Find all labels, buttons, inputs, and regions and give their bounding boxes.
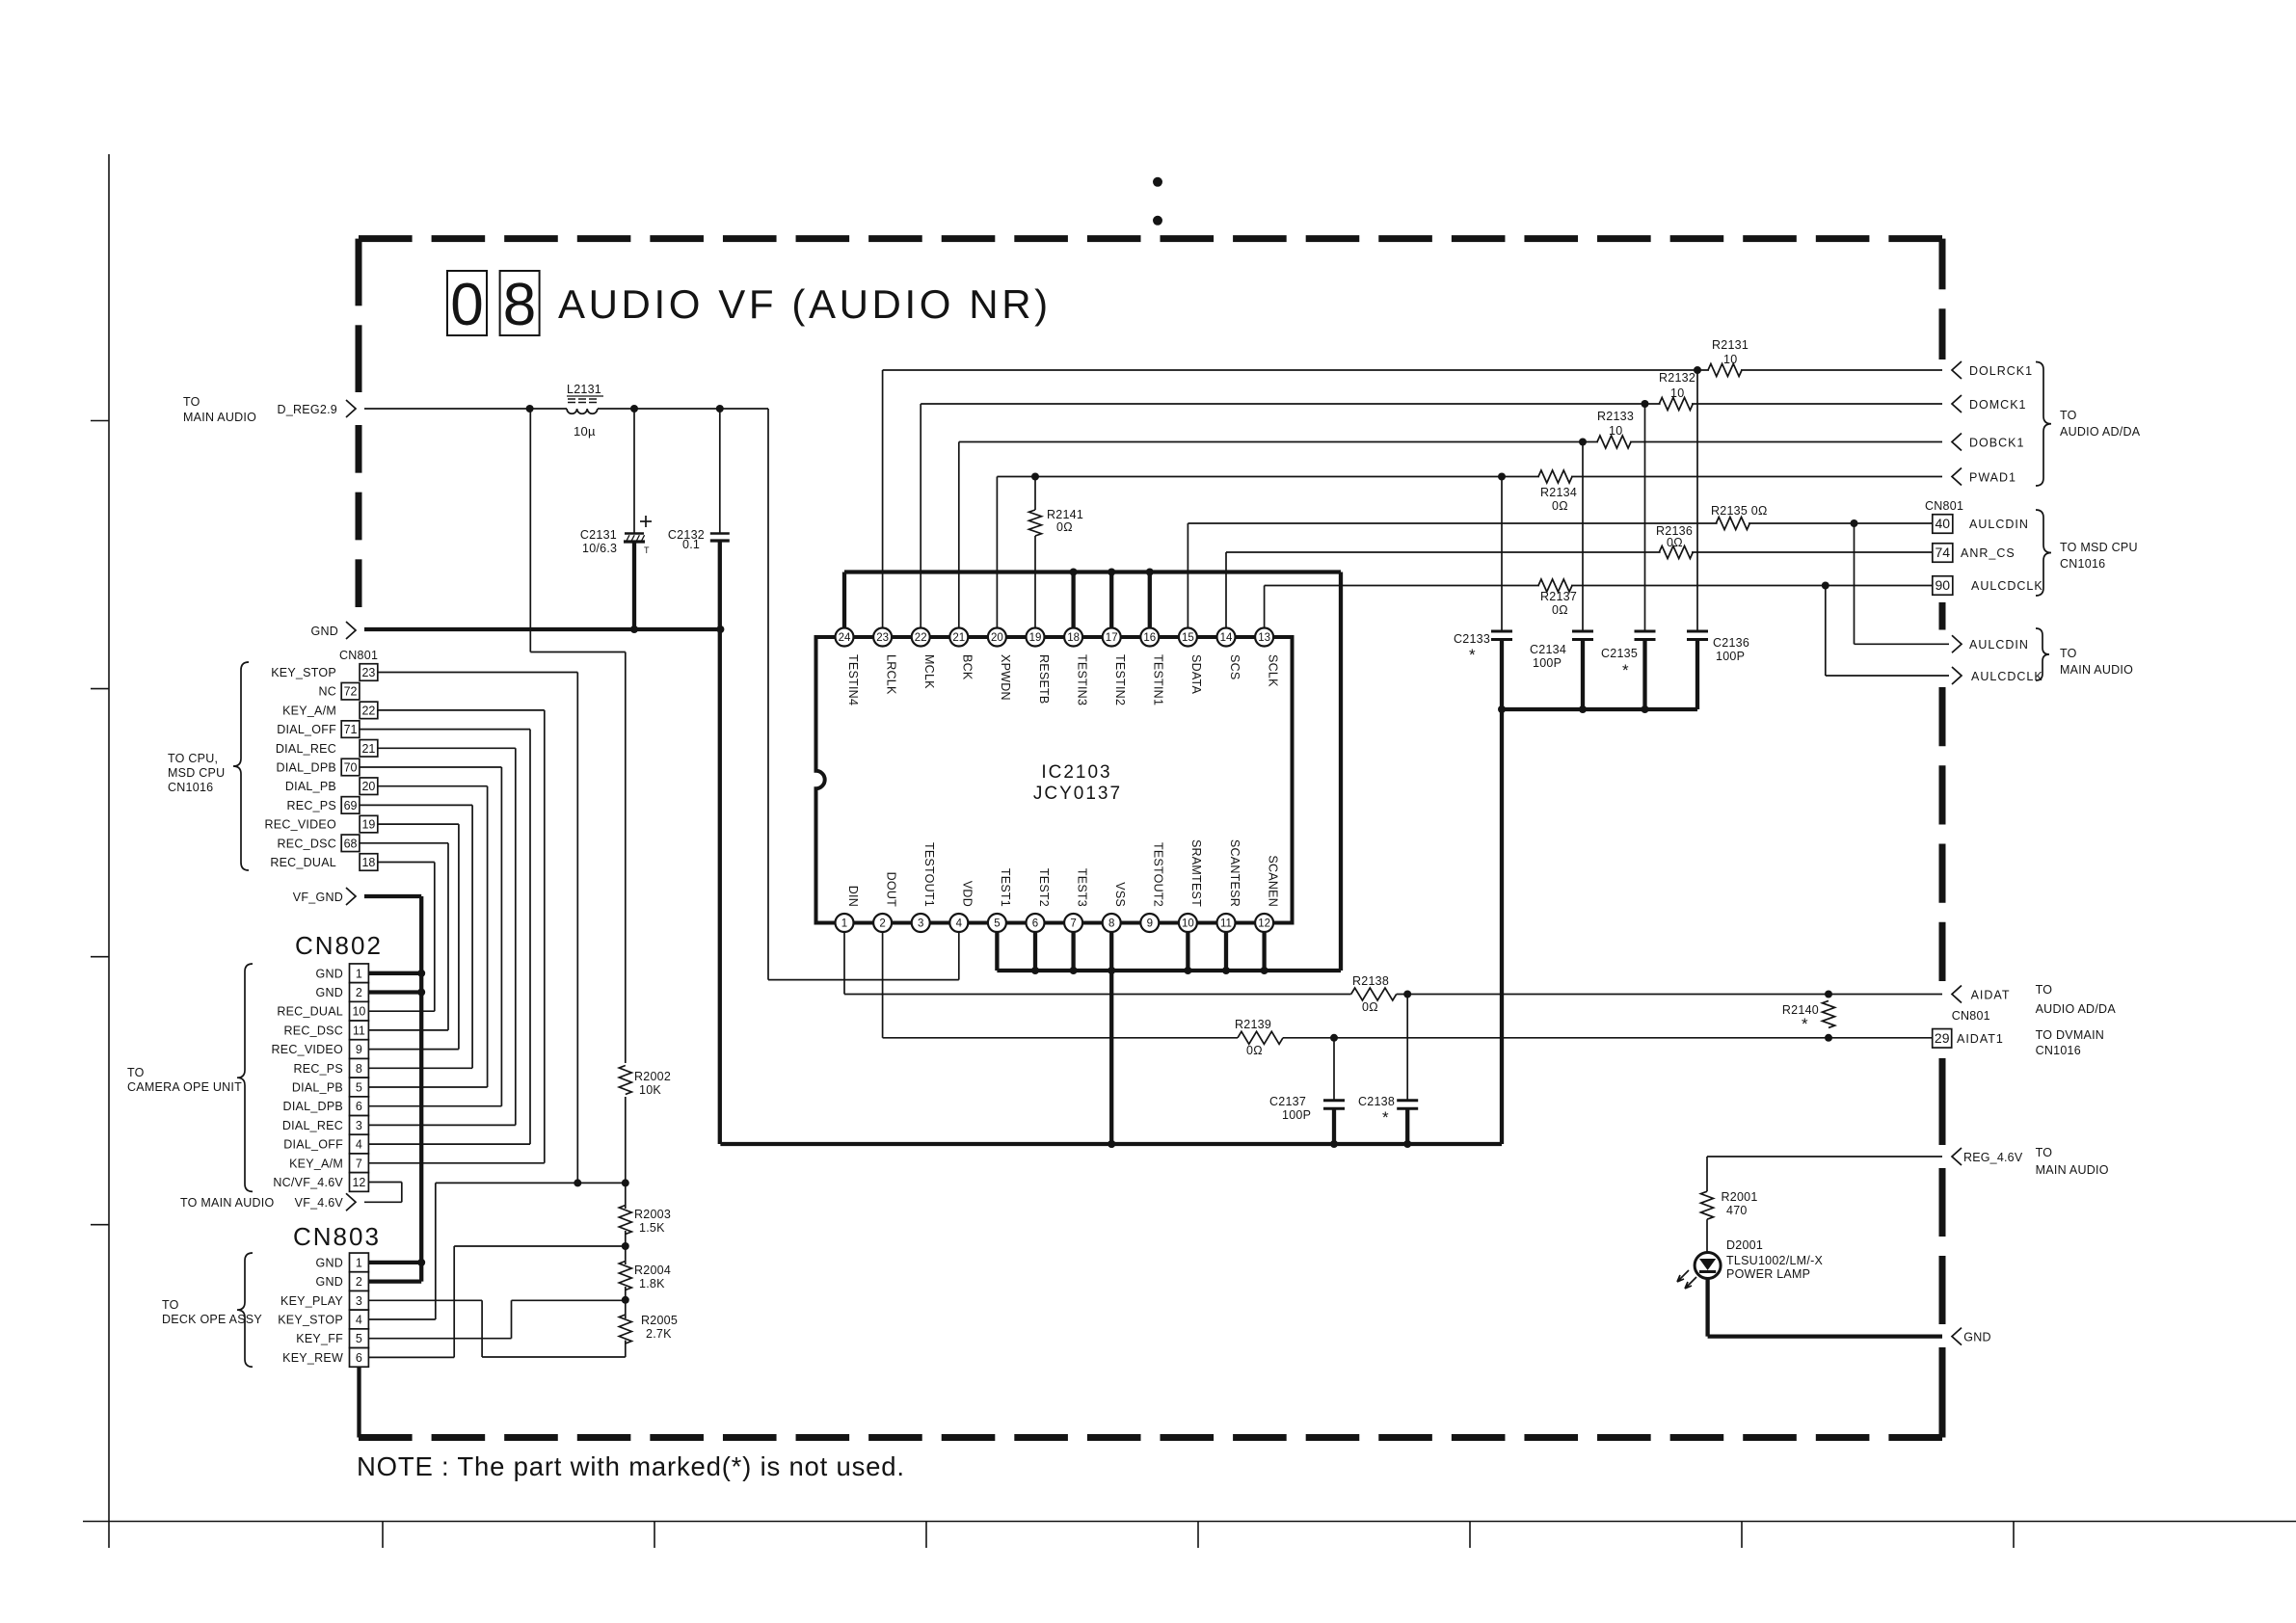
svg-text:KEY_STOP: KEY_STOP [278,1314,343,1327]
svg-text:15: 15 [1182,632,1194,644]
svg-text:1: 1 [356,1256,362,1269]
svg-text:L2131: L2131 [567,383,601,396]
svg-text:DIAL_REC: DIAL_REC [282,1119,343,1132]
svg-text:MAIN AUDIO: MAIN AUDIO [2036,1163,2109,1177]
svg-text:5: 5 [356,1332,362,1345]
svg-text:TO MSD CPU: TO MSD CPU [2060,541,2138,554]
svg-text:10: 10 [352,1005,365,1019]
svg-text:C2131: C2131 [580,528,617,542]
svg-text:10µ: 10µ [574,424,596,439]
svg-text:AIDAT: AIDAT [1971,989,2011,1002]
svg-text:REC_DSC: REC_DSC [284,1024,344,1037]
svg-text:DOMCK1: DOMCK1 [1969,398,2026,412]
svg-text:LRCLK: LRCLK [884,654,897,695]
svg-text:TO: TO [2060,409,2077,422]
svg-text:18: 18 [1067,632,1080,644]
svg-text:R2001: R2001 [1722,1190,1758,1204]
svg-text:MAIN AUDIO: MAIN AUDIO [2060,663,2133,677]
svg-text:MAIN AUDIO: MAIN AUDIO [183,411,256,424]
svg-text:4: 4 [356,1138,362,1152]
svg-text:R2002: R2002 [634,1070,671,1083]
svg-text:R2138: R2138 [1352,974,1389,988]
svg-text:CAMERA OPE UNIT: CAMERA OPE UNIT [127,1080,242,1094]
svg-text:21: 21 [361,742,375,756]
svg-text:17: 17 [1106,632,1118,644]
svg-text:TO: TO [162,1298,179,1312]
svg-text:GND: GND [1963,1331,1991,1344]
svg-text:TEST3: TEST3 [1075,868,1088,907]
svg-text:0: 0 [450,272,483,338]
svg-text:3: 3 [356,1294,362,1308]
svg-text:71: 71 [344,723,358,736]
svg-text:1.5K: 1.5K [639,1221,665,1235]
svg-text:REC_DUAL: REC_DUAL [277,1005,343,1019]
svg-text:TO CPU,: TO CPU, [168,752,218,765]
svg-text:AIDAT1: AIDAT1 [1957,1032,2004,1046]
svg-text:VDD: VDD [961,881,974,907]
svg-text:KEY_REW: KEY_REW [282,1351,343,1365]
svg-text:8: 8 [356,1062,362,1076]
svg-text:3: 3 [918,918,923,930]
svg-text:DIAL_PB: DIAL_PB [292,1081,343,1095]
svg-text:VF_4.6V: VF_4.6V [295,1196,344,1210]
svg-text:C2135: C2135 [1601,647,1638,660]
svg-text:AUDIO AD/DA: AUDIO AD/DA [2036,1002,2117,1016]
svg-text:AULCDCLK: AULCDCLK [1971,670,2043,683]
svg-text:3: 3 [356,1119,362,1132]
svg-text:20: 20 [361,780,375,793]
svg-text:TO MAIN AUDIO: TO MAIN AUDIO [180,1196,275,1210]
svg-text:SRAMTEST: SRAMTEST [1189,839,1203,907]
svg-text:CN803: CN803 [293,1222,381,1251]
svg-text:R2139: R2139 [1235,1018,1271,1031]
svg-text:BCK: BCK [961,654,974,680]
svg-text:TO: TO [2036,983,2053,997]
svg-text:6: 6 [1032,918,1038,930]
svg-text:GND: GND [315,986,343,999]
svg-text:12: 12 [352,1176,365,1189]
svg-text:NC: NC [318,685,336,699]
svg-text:C2133: C2133 [1454,632,1490,646]
svg-text:R2134: R2134 [1540,486,1577,499]
svg-text:CN801: CN801 [1925,499,1963,513]
svg-text:CN1016: CN1016 [2036,1044,2081,1057]
svg-text:R2005: R2005 [641,1314,678,1327]
svg-text:DIAL_DPB: DIAL_DPB [277,761,336,775]
svg-text:POWER LAMP: POWER LAMP [1726,1267,1810,1281]
svg-text:MCLK: MCLK [922,654,936,689]
svg-text:TESTOUT1: TESTOUT1 [922,842,936,907]
svg-text:DIAL_DPB: DIAL_DPB [283,1100,343,1113]
svg-text:22: 22 [915,632,927,644]
svg-text:10K: 10K [639,1083,661,1097]
svg-text:R2132: R2132 [1659,371,1695,385]
svg-text:C2136: C2136 [1713,636,1749,650]
svg-text:KEY_A/M: KEY_A/M [282,704,336,717]
svg-text:19: 19 [361,818,375,832]
svg-text:*: * [1469,646,1476,664]
svg-text:1: 1 [841,918,847,930]
svg-text:MSD CPU: MSD CPU [168,766,225,780]
svg-text:2: 2 [879,918,885,930]
svg-text:TO: TO [127,1066,145,1079]
svg-text:8: 8 [1108,918,1114,930]
svg-text:9: 9 [356,1043,362,1056]
svg-text:21: 21 [952,632,965,644]
svg-text:0Ω: 0Ω [1362,1000,1378,1014]
svg-text:R2137: R2137 [1540,590,1577,603]
svg-text:VSS: VSS [1113,882,1127,907]
svg-text:100P: 100P [1282,1108,1311,1122]
svg-text:C2138: C2138 [1358,1095,1395,1108]
svg-text:0Ω: 0Ω [1246,1044,1263,1057]
svg-text:DOBCK1: DOBCK1 [1969,437,2024,450]
svg-text:CN801: CN801 [339,649,378,662]
svg-text:11: 11 [353,1024,365,1037]
svg-text:REC_VIDEO: REC_VIDEO [272,1043,344,1056]
svg-text:4: 4 [956,918,963,930]
svg-text:68: 68 [344,837,358,850]
svg-text:CN1016: CN1016 [168,781,213,794]
svg-text:R2004: R2004 [634,1264,671,1277]
svg-text:GND: GND [310,625,338,638]
svg-text:2.7K: 2.7K [646,1327,672,1341]
svg-text:TO: TO [2036,1146,2053,1159]
svg-text:C2137: C2137 [1269,1095,1306,1108]
svg-text:RESETB: RESETB [1037,654,1051,705]
svg-text:13: 13 [1258,632,1270,644]
svg-text:KEY_FF: KEY_FF [296,1332,343,1345]
svg-text:0Ω: 0Ω [1667,536,1683,549]
svg-text:6: 6 [356,1351,362,1365]
svg-text:TEST2: TEST2 [1037,868,1051,907]
svg-text:24: 24 [839,632,851,644]
svg-text:KEY_STOP: KEY_STOP [271,666,336,679]
svg-text:REC_DSC: REC_DSC [278,837,337,850]
svg-text:XPWDN: XPWDN [999,654,1012,701]
svg-text:TLSU1002/LM/-X: TLSU1002/LM/-X [1726,1254,1823,1267]
svg-text:CN801: CN801 [1952,1009,1990,1023]
svg-text:10: 10 [1182,918,1194,930]
svg-text:5: 5 [356,1081,362,1095]
svg-text:D_REG2.9: D_REG2.9 [278,403,337,416]
svg-text:DIAL_OFF: DIAL_OFF [283,1138,343,1152]
svg-text:SDATA: SDATA [1189,654,1203,694]
svg-text:R2135 0Ω: R2135 0Ω [1711,504,1768,518]
svg-text:TESTIN3: TESTIN3 [1075,654,1088,705]
svg-text:DIAL_REC: DIAL_REC [276,742,336,756]
svg-text:4: 4 [356,1314,362,1327]
svg-text:22: 22 [361,704,375,717]
svg-text:TO DVMAIN: TO DVMAIN [2036,1028,2104,1042]
svg-text:R2133: R2133 [1597,410,1634,423]
svg-text:20: 20 [991,632,1003,644]
svg-text:VF_GND: VF_GND [293,891,343,904]
svg-text:TESTOUT2: TESTOUT2 [1152,842,1165,907]
svg-text:10: 10 [1723,353,1737,366]
svg-text:18: 18 [361,856,375,869]
svg-text:NC/VF_4.6V: NC/VF_4.6V [273,1176,343,1189]
svg-text:CN802: CN802 [295,931,383,960]
svg-text:0Ω: 0Ω [1552,603,1568,617]
svg-text:JCY0137: JCY0137 [1033,784,1122,804]
svg-text:AULCDIN: AULCDIN [1969,638,2029,652]
svg-text:10: 10 [1609,424,1622,438]
svg-text:5: 5 [994,918,1000,930]
svg-text:TESTIN1: TESTIN1 [1152,654,1165,705]
svg-text:NOTE : The part with marked(*): NOTE : The part with marked(*) is not us… [357,1451,905,1481]
svg-text:DIN: DIN [846,886,860,907]
svg-text:TESTIN2: TESTIN2 [1113,654,1127,705]
svg-text:AULCDIN: AULCDIN [1969,518,2029,531]
svg-text:DOUT: DOUT [884,872,897,908]
svg-text:D2001: D2001 [1726,1238,1763,1252]
svg-text:12: 12 [1258,918,1270,930]
svg-text:7: 7 [1070,918,1076,930]
svg-text:100P: 100P [1533,656,1562,670]
svg-text:*: * [1802,1015,1808,1033]
svg-text:*: * [1622,661,1629,679]
svg-text:0.1: 0.1 [682,538,700,551]
svg-text:40: 40 [1936,516,1951,531]
svg-text:1: 1 [356,967,362,980]
svg-text:TEST1: TEST1 [999,868,1012,907]
svg-text:TO: TO [183,395,200,409]
svg-text:REG_4.6V: REG_4.6V [1963,1151,2023,1164]
svg-text:23: 23 [876,632,889,644]
svg-text:1.8K: 1.8K [639,1277,665,1290]
svg-text:SCS: SCS [1228,654,1241,679]
svg-text:19: 19 [1029,632,1042,644]
svg-text:ANR_CS: ANR_CS [1961,546,2016,560]
svg-text:SCANTESR: SCANTESR [1228,839,1241,907]
svg-text:DECK OPE ASSY: DECK OPE ASSY [162,1313,262,1326]
svg-text:11: 11 [1220,918,1232,930]
svg-text:R2140: R2140 [1782,1003,1819,1017]
svg-text:90: 90 [1936,577,1951,593]
svg-text:14: 14 [1220,632,1233,644]
svg-text:0Ω: 0Ω [1056,520,1073,534]
svg-text:GND: GND [315,967,343,980]
svg-text:10/6.3: 10/6.3 [582,542,617,555]
svg-text:GND: GND [315,1275,343,1289]
svg-text:100P: 100P [1716,650,1745,663]
svg-text:AUDIO AD/DA: AUDIO AD/DA [2060,425,2141,439]
svg-text:8: 8 [503,272,536,338]
svg-text:SCLK: SCLK [1266,654,1279,687]
svg-text:16: 16 [1143,632,1156,644]
svg-text:AULCDCLK: AULCDCLK [1971,579,2043,593]
svg-text:AUDIO VF (AUDIO NR): AUDIO VF (AUDIO NR) [558,281,1052,327]
svg-text:REC_VIDEO: REC_VIDEO [265,818,337,832]
svg-text:R2003: R2003 [634,1208,671,1221]
svg-text:23: 23 [361,666,375,679]
svg-text:DIAL_PB: DIAL_PB [285,780,336,793]
svg-text:REC_PS: REC_PS [293,1062,343,1076]
svg-text:72: 72 [344,685,358,699]
svg-text:69: 69 [344,799,358,812]
svg-text:REC_DUAL: REC_DUAL [270,856,336,869]
svg-text:KEY_PLAY: KEY_PLAY [280,1294,343,1308]
svg-text:T: T [644,545,650,555]
svg-text:C2134: C2134 [1530,643,1566,656]
svg-text:6: 6 [356,1100,362,1113]
svg-text:DIAL_OFF: DIAL_OFF [277,723,336,736]
svg-text:74: 74 [1936,545,1951,560]
svg-text:R2131: R2131 [1712,338,1749,352]
svg-text:*: * [1382,1108,1389,1127]
svg-text:KEY_A/M: KEY_A/M [289,1157,343,1170]
svg-text:PWAD1: PWAD1 [1969,471,2016,485]
svg-text:SCANEN: SCANEN [1266,855,1279,907]
svg-text:CN1016: CN1016 [2060,557,2105,571]
svg-text:2: 2 [356,1275,362,1289]
svg-text:REC_PS: REC_PS [286,799,336,812]
svg-text:TO: TO [2060,647,2077,660]
svg-text:TESTIN4: TESTIN4 [846,654,860,705]
svg-text:10: 10 [1670,386,1684,400]
svg-text:DOLRCK1: DOLRCK1 [1969,364,2033,378]
svg-text:GND: GND [315,1256,343,1269]
svg-text:2: 2 [356,986,362,999]
svg-text:R2141: R2141 [1047,508,1083,521]
svg-text:9: 9 [1147,918,1153,930]
svg-text:IC2103: IC2103 [1041,762,1111,783]
svg-text:0Ω: 0Ω [1552,499,1568,513]
svg-text:470: 470 [1726,1204,1748,1217]
svg-text:7: 7 [356,1157,362,1170]
svg-text:29: 29 [1935,1030,1950,1046]
svg-text:70: 70 [344,761,358,775]
